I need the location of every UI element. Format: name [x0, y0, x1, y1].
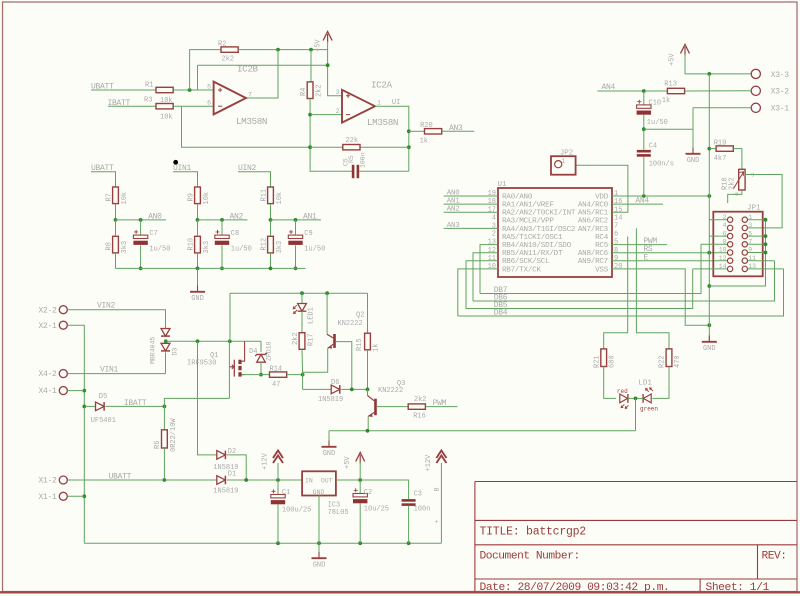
- wire R4 bottom to C5: [310, 99, 353, 172]
- svg-text:C9: C9: [304, 230, 312, 238]
- svg-text:AN0: AN0: [447, 190, 460, 198]
- junction VDD/+5V column: [707, 194, 711, 198]
- wire UBATT row left: [68, 479, 165, 481]
- wire C2 to rail: [359, 503, 361, 543]
- svg-text:3k3: 3k3: [203, 241, 211, 254]
- wire R16 PWM stub: [425, 406, 457, 408]
- ground IC3: [312, 552, 327, 569]
- svg-text:R13: R13: [664, 81, 677, 89]
- svg-text:JP1: JP1: [747, 205, 761, 213]
- svg-text:KN2222: KN2222: [338, 320, 363, 328]
- wire R11 to node AN1: [270, 204, 272, 220]
- wire +12V arrow stem: [277, 463, 279, 480]
- junction VSS/GND: [707, 323, 711, 327]
- svg-text:Sheet: 1/1: Sheet: 1/1: [706, 582, 770, 594]
- capacitor C7 1u/50: [133, 230, 147, 245]
- +5V arrow: [323, 32, 332, 43]
- wire D4 to R14 row: [260, 362, 262, 375]
- svg-text:13: 13: [488, 239, 496, 247]
- svg-text:AN4: AN4: [635, 197, 649, 206]
- svg-text:RA2/AN2/T0CKI/INT: RA2/AN2/T0CKI/INT: [502, 210, 576, 218]
- svg-text:e: e: [735, 190, 738, 197]
- svg-text:GND: GND: [313, 489, 325, 496]
- wire R14 to Q2 emitter node: [287, 374, 303, 376]
- JP1 pin 1: [742, 217, 747, 222]
- svg-text:X1-2: X1-2: [38, 477, 57, 486]
- svg-text:2: 2: [492, 231, 496, 239]
- svg-text:10: 10: [488, 263, 496, 271]
- svg-text:7: 7: [614, 223, 618, 231]
- svg-text:GND: GND: [191, 295, 204, 303]
- svg-text:R16: R16: [413, 413, 426, 421]
- wire R22 to green LED: [653, 367, 670, 399]
- wire to R14: [261, 374, 270, 376]
- resistor R8: [113, 236, 119, 253]
- junction R1/R2 node: [188, 88, 192, 92]
- wire E to JP1 pin12: [612, 260, 728, 262]
- wire D2 to +12V node: [227, 455, 246, 480]
- svg-text:C8: C8: [231, 230, 239, 238]
- svg-text:TITLE: battcrgp2: TITLE: battcrgp2: [480, 526, 587, 539]
- svg-text:KN2222: KN2222: [378, 387, 403, 395]
- diode D5: [96, 402, 105, 411]
- +5V arrow right: [681, 45, 690, 56]
- diode D2: [217, 451, 226, 460]
- svg-text:10k: 10k: [203, 192, 211, 205]
- svg-text:RC4: RC4: [595, 234, 609, 242]
- svg-text:22k: 22k: [346, 137, 359, 145]
- bottom thick border line: [0, 591, 800, 593]
- svg-text:AN9/RC7: AN9/RC7: [578, 258, 608, 266]
- wire Q2 base down: [336, 342, 352, 390]
- svg-text:JP2: JP2: [560, 150, 574, 158]
- wire D3 node down to D2: [198, 341, 217, 455]
- svg-text:R22: R22: [659, 355, 667, 368]
- svg-text:X3-2: X3-2: [771, 88, 790, 97]
- svg-text:2: 2: [336, 108, 340, 115]
- junction to D2 branch: [196, 339, 200, 343]
- wire DB5 row: [466, 269, 693, 309]
- wire IC2B pin5 up leg: [197, 65, 199, 90]
- wire LED1 to R17: [301, 311, 303, 333]
- wire rail to GND: [197, 268, 199, 291]
- junction C3/rail: [407, 541, 411, 545]
- connector pin X3-2: [751, 86, 760, 95]
- wire to LED1: [301, 293, 303, 303]
- diode D1: [217, 476, 226, 485]
- wire DB4 row: [458, 269, 784, 316]
- wire RS to JP1 pin10: [612, 252, 728, 254]
- wire AN4 to R13: [598, 90, 668, 92]
- svg-text:R2: R2: [218, 40, 226, 48]
- wire to R4 top: [310, 50, 312, 82]
- junction LED1: [300, 291, 304, 295]
- connector pin X2-2: [59, 306, 67, 314]
- svg-text:1u/50: 1u/50: [149, 246, 170, 254]
- svg-text:C3: C3: [414, 491, 422, 499]
- junction Q2 collector: [325, 291, 329, 295]
- ground X3/C10: [686, 148, 701, 165]
- wire U1 RC3 to R22: [636, 228, 669, 349]
- junction D2/D1: [244, 478, 248, 482]
- wire JP1 pin9 to gnd bus: [748, 252, 766, 254]
- dual LED LD1 red: [620, 394, 629, 409]
- wire DB7 row: [480, 244, 701, 293]
- wire IBATT to R3: [108, 105, 156, 107]
- wire to IC2A pin2: [310, 114, 342, 116]
- wire to D5: [84, 405, 95, 407]
- wire to 22k: [310, 146, 343, 148]
- wire IC3 GND pin: [318, 496, 320, 559]
- svg-text:VIN2: VIN2: [97, 302, 116, 311]
- svg-text:UF5401: UF5401: [91, 417, 116, 425]
- junction R2/output feedback: [276, 48, 280, 52]
- junction LD1 cathodes: [634, 397, 638, 401]
- capacitor C5: [352, 165, 359, 178]
- connector pin X1-1: [59, 492, 67, 500]
- wire X3-1 down: [692, 108, 694, 129]
- capacitor C2: [353, 488, 367, 503]
- svg-text:IBATT: IBATT: [124, 399, 147, 408]
- resistor R19: [716, 146, 733, 151]
- svg-text:7: 7: [248, 91, 252, 98]
- wire row to IC2A pin3: [198, 64, 328, 66]
- svg-text:U1: U1: [498, 181, 508, 189]
- wire R9 to node AN2: [197, 204, 199, 220]
- wire U1 RC4 to R21: [604, 237, 628, 349]
- svg-text:RC5: RC5: [595, 242, 609, 250]
- svg-text:+12V: +12V: [262, 452, 270, 470]
- svg-text:UBATT: UBATT: [109, 472, 132, 481]
- junction RS crossing: [707, 251, 711, 255]
- svg-text:R19: R19: [714, 139, 727, 147]
- ground JP1 column: [702, 336, 717, 353]
- wire D3 node row: [166, 340, 261, 342]
- wire R17 to node: [301, 349, 304, 374]
- svg-text:IN: IN: [305, 478, 313, 485]
- JP1 pin 12: [727, 258, 732, 263]
- svg-text:1u/50: 1u/50: [304, 246, 325, 254]
- resistor R9: [195, 187, 201, 204]
- svg-text:X2-2: X2-2: [38, 306, 57, 315]
- wire to D6: [303, 388, 332, 390]
- wire JP1 pin11 to DB6: [748, 260, 775, 262]
- JP1 pin 7: [742, 242, 747, 247]
- +12V arrow right: [436, 451, 446, 464]
- wire C5 right to output column: [359, 170, 409, 172]
- wire feedback up to R2: [190, 50, 221, 90]
- svg-text:C7: C7: [149, 230, 157, 238]
- svg-text:B: B: [434, 487, 441, 491]
- wire R13 to X3-2: [685, 90, 752, 92]
- junction R4/22k: [308, 145, 312, 149]
- svg-text:1k: 1k: [420, 138, 428, 146]
- wire +12V right stem: [440, 463, 442, 543]
- wire DB7 to JP1 pin8: [701, 243, 727, 245]
- svg-text:AN3: AN3: [449, 124, 463, 133]
- wire Q2 collector: [326, 293, 328, 334]
- wire VDD row: [612, 195, 709, 197]
- svg-text:D1: D1: [228, 471, 236, 479]
- op-amp IC2B: [214, 82, 246, 115]
- wire net UBATT to R1: [108, 89, 156, 91]
- svg-text:0R22/10W: 0R22/10W: [170, 418, 178, 452]
- connector pin X4-1: [59, 387, 67, 395]
- svg-text:+: +: [435, 519, 439, 526]
- svg-text:2k2: 2k2: [316, 84, 324, 97]
- svg-text:2k2: 2k2: [414, 396, 427, 404]
- wire +5V arrow stem: [359, 462, 361, 480]
- resistor R3: [156, 104, 173, 109]
- svg-text:100n: 100n: [414, 506, 431, 514]
- wire to R15: [367, 293, 369, 333]
- svg-text:100u/25: 100u/25: [282, 507, 311, 515]
- svg-text:1N5819: 1N5819: [318, 396, 343, 404]
- wire to GND: [328, 431, 330, 447]
- wire VIN2 from X2-2 to D3: [68, 310, 166, 329]
- wire net UIN2 down to R11: [238, 172, 271, 187]
- svg-text:6: 6: [614, 231, 618, 239]
- jumper JP2: [551, 156, 576, 175]
- wire JP1 pin7 to gnd bus: [748, 243, 766, 245]
- junction AN0/C7: [139, 218, 143, 222]
- svg-text:red: red: [617, 388, 628, 395]
- svg-text:5: 5: [207, 83, 211, 90]
- svg-text:Date: 28/07/2009 09:03:42 p.m.: Date: 28/07/2009 09:03:42 p.m.: [480, 582, 670, 594]
- svg-text:16: 16: [614, 198, 622, 206]
- voltage regulator IC3 78L05: [302, 471, 336, 495]
- svg-text:X4-1: X4-1: [38, 387, 57, 396]
- wire VIN1 from X4-2 to D3: [68, 373, 166, 375]
- wire: [270, 220, 272, 236]
- wire net AN0 to U1: [444, 195, 498, 197]
- connector pin X4-2: [59, 370, 67, 378]
- svg-text:14: 14: [614, 214, 622, 222]
- junction R6/UBATT: [163, 478, 167, 482]
- svg-text:VIN1: VIN1: [100, 365, 119, 374]
- svg-text:AN7/RC3: AN7/RC3: [578, 226, 609, 234]
- junction Q3 emitter: [366, 429, 370, 433]
- wire +5V to X3-3: [685, 54, 751, 74]
- svg-text:LD1: LD1: [638, 379, 652, 387]
- wire R12 to rail: [270, 253, 272, 269]
- +12V arrow left: [273, 451, 283, 464]
- svg-text:+5V: +5V: [315, 39, 323, 52]
- wire +12V top row: [230, 292, 368, 294]
- diode D3 bottom half: [161, 343, 170, 351]
- wire JP1 pin5 to gnd bus: [748, 235, 766, 237]
- junction R4/pin2: [308, 113, 312, 117]
- resistor R4: [307, 82, 313, 99]
- svg-text:10k: 10k: [121, 192, 129, 205]
- wire C10 to C4: [643, 115, 645, 150]
- wire X4-1 stub: [68, 390, 85, 392]
- wire R10 to rail: [197, 253, 199, 269]
- wire pot wiper to JP1 pin3: [745, 175, 782, 228]
- svg-text:2k2: 2k2: [729, 177, 737, 190]
- wire AN1 to C9: [295, 220, 297, 235]
- svg-text:VDD: VDD: [595, 193, 609, 201]
- svg-text:1u/50: 1u/50: [231, 246, 252, 254]
- wire Q3 collector: [367, 389, 369, 395]
- svg-text:R8: R8: [105, 242, 113, 250]
- svg-text:RA5/T1CKI/OSC1: RA5/T1CKI/OSC1: [502, 234, 563, 242]
- svg-text:C1: C1: [282, 489, 290, 497]
- JP1 pin 10: [727, 250, 732, 255]
- junction gnd bus pin7: [764, 242, 768, 246]
- resistor R17: [299, 333, 305, 350]
- wire JP1 gnd bus: [709, 220, 765, 286]
- svg-text:R21: R21: [593, 355, 601, 368]
- resistor R1: [156, 87, 173, 92]
- svg-text:Document Number:: Document Number:: [480, 551, 580, 563]
- wire X2-1 down bus: [68, 325, 85, 543]
- svg-text:RA0/AN0: RA0/AN0: [502, 193, 533, 201]
- svg-text:AN6/RC2: AN6/RC2: [578, 218, 609, 226]
- resistor R5 22k: [343, 145, 360, 150]
- diode D3 top half: [161, 329, 170, 337]
- svg-text:R11: R11: [260, 189, 268, 202]
- JP1 pin 4: [727, 225, 732, 230]
- svg-text:LM358N: LM358N: [236, 116, 267, 127]
- svg-text:2k2: 2k2: [292, 332, 300, 345]
- junction R15/Q3 collector: [366, 388, 370, 392]
- svg-text:R17: R17: [307, 333, 315, 346]
- wire X3-1 row: [693, 107, 751, 109]
- svg-text:C10: C10: [649, 100, 662, 108]
- connector pin X3-1: [751, 103, 760, 112]
- svg-text:100n: 100n: [360, 152, 367, 168]
- wire 22k to output: [360, 146, 409, 148]
- wire DB5 to JP1 pin14: [693, 268, 727, 270]
- wire JP1 pin6: [709, 235, 727, 237]
- wire C4 to VDD row: [643, 157, 645, 196]
- junction R19: [707, 147, 711, 151]
- transistor Q1 IRF9530 P-MOSFET: [229, 341, 244, 376]
- wire R19 to pot R18: [733, 149, 742, 170]
- wire net UIN1 down to R9: [173, 172, 198, 187]
- wire D6 to Q3: [341, 388, 367, 390]
- wire UBATT to D1: [164, 479, 216, 481]
- wire AN4 to C10: [643, 91, 645, 105]
- svg-text:PWM: PWM: [433, 399, 447, 408]
- wire R20 to AN3 stub: [442, 130, 475, 132]
- svg-text:RA1/AN1/VREF: RA1/AN1/VREF: [502, 202, 554, 210]
- svg-text:X2-1: X2-1: [38, 322, 57, 331]
- wire LD1 center: [628, 397, 643, 399]
- connector pin X2-1: [59, 321, 67, 329]
- svg-text:GND: GND: [703, 345, 716, 353]
- wire JP1 pin1 to gnd bus: [748, 219, 766, 221]
- wire AN0 to C7: [140, 220, 142, 235]
- svg-text:4: 4: [723, 222, 727, 229]
- svg-text:1k: 1k: [372, 344, 380, 352]
- wire pin6 node down to 22k row: [182, 106, 311, 147]
- wire R6 to UBATT row: [163, 448, 165, 480]
- svg-text:3: 3: [492, 223, 496, 231]
- resistor R21 680: [601, 349, 607, 367]
- wire Q3 emitter ground row: [329, 430, 636, 432]
- svg-text:+5V: +5V: [669, 53, 677, 66]
- svg-text:+5V: +5V: [344, 456, 352, 469]
- wire R1 to IC2B pin5: [173, 89, 213, 91]
- wire VSS to ground node: [612, 269, 709, 325]
- junction rail R12: [269, 267, 273, 271]
- wire divider ground rail: [116, 267, 306, 269]
- ground divider: [190, 286, 205, 303]
- wire to C2: [359, 480, 361, 494]
- junction to Q1 gate branch: [228, 339, 232, 343]
- junction C1/rail: [276, 541, 280, 545]
- svg-text:10: 10: [719, 247, 727, 254]
- wire RB4 to DB7 bracket: [480, 245, 498, 294]
- svg-text:10k: 10k: [276, 192, 284, 205]
- wire to R20: [409, 130, 425, 132]
- svg-text:D5: D5: [99, 393, 107, 401]
- wire Q3 emitter: [367, 416, 369, 430]
- junction AN2/C8: [220, 218, 224, 222]
- svg-text:DB4: DB4: [494, 309, 508, 318]
- svg-text:AN2: AN2: [230, 212, 244, 221]
- svg-text:X3-1: X3-1: [771, 105, 790, 114]
- svg-text:OUT: OUT: [321, 478, 333, 485]
- stray black dot above UIN1: [173, 160, 178, 165]
- wire Q2 emitter to D6 row: [303, 348, 328, 389]
- svg-text:AN8/RC6: AN8/RC6: [578, 250, 609, 258]
- svg-text:R10: R10: [187, 238, 195, 251]
- junction X4-1 row: [82, 389, 86, 393]
- capacitor C1: [271, 489, 285, 504]
- svg-text:1u/50: 1u/50: [647, 119, 668, 127]
- wire RC1 to JP2: [576, 165, 628, 212]
- junction D3 common node: [164, 339, 168, 343]
- svg-text:4: 4: [492, 214, 496, 222]
- wire to D4: [260, 341, 262, 352]
- junction AN1 row: [269, 218, 273, 222]
- svg-text:R14: R14: [270, 365, 283, 373]
- junction +5V column top: [707, 72, 711, 76]
- svg-text:5: 5: [614, 239, 618, 247]
- svg-text:RA4/AN3/T1GI/OSC2: RA4/AN3/T1GI/OSC2: [502, 226, 576, 234]
- svg-text:X1-1: X1-1: [38, 493, 57, 502]
- svg-text:+12V: +12V: [425, 454, 433, 472]
- junction AN4/C10: [642, 89, 646, 93]
- wire Q1 gate column: [228, 341, 230, 398]
- svg-text:1k: 1k: [662, 97, 670, 105]
- wire +5V to JP1 pin2: [709, 219, 727, 221]
- svg-text:11: 11: [488, 255, 496, 263]
- svg-text:100n/s: 100n/s: [649, 161, 674, 169]
- wire: [115, 220, 117, 236]
- svg-text:AN4/RC0: AN4/RC0: [578, 202, 609, 210]
- resistor R12: [268, 236, 274, 253]
- JP1 pin 3: [742, 225, 747, 230]
- svg-text:RB7/TX/CK: RB7/TX/CK: [502, 266, 541, 274]
- junction C2/rail: [358, 541, 362, 545]
- junction gnd bus pin9: [764, 251, 768, 255]
- wire: [197, 220, 199, 236]
- svg-text:470: 470: [674, 355, 682, 368]
- svg-text:D6: D6: [331, 379, 339, 387]
- junction R2 line to R4: [309, 48, 313, 52]
- wire net AN1 to U1: [444, 203, 498, 205]
- svg-text:6: 6: [207, 100, 211, 107]
- +5V arrow regulator: [356, 453, 365, 464]
- wire DB6 row: [473, 261, 775, 301]
- wire to R6: [163, 406, 165, 429]
- wire net UBATT down to R7: [91, 172, 116, 187]
- junction AN0 row: [114, 218, 118, 222]
